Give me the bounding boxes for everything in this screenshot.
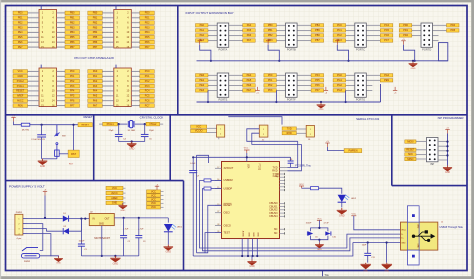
svg-text:PB7: PB7 bbox=[315, 39, 320, 42]
svg-text:PA5: PA5 bbox=[93, 95, 98, 98]
net label PC2 bbox=[333, 34, 346, 38]
svg-text:PB4: PB4 bbox=[70, 31, 75, 34]
junction PORTE drop/bus bbox=[207, 101, 209, 103]
wire CON2 left pin 5 bbox=[102, 22, 114, 24]
junction PORTF drop/bus bbox=[275, 101, 277, 103]
svg-text:PD5: PD5 bbox=[145, 36, 150, 39]
svg-text:PWREN: PWREN bbox=[349, 149, 358, 152]
crystal X1 bbox=[128, 120, 134, 127]
wire CON1 left pin 5 bbox=[28, 22, 40, 24]
wire CON1 left pin 7 bbox=[28, 27, 40, 29]
net label PE3 bbox=[196, 89, 209, 93]
wire PORTG right row 2 bbox=[366, 79, 380, 81]
junction PORTB hook/bus bbox=[278, 60, 280, 62]
wire bottom bus right end bbox=[380, 84, 382, 102]
svg-text:PE1: PE1 bbox=[18, 17, 23, 20]
wire bottom expansion bus bbox=[197, 101, 381, 103]
net label PF7 bbox=[65, 104, 80, 108]
wire CON1 left pin 3 bbox=[28, 17, 40, 19]
net label PD7 bbox=[140, 45, 155, 49]
svg-text:PA7: PA7 bbox=[93, 104, 98, 107]
capacitor C6 bbox=[308, 231, 313, 235]
capacitor C8 bbox=[288, 161, 294, 163]
net label PA3 bbox=[196, 39, 209, 42]
divider horizontal main bbox=[6, 114, 468, 116]
svg-text:PD7: PD7 bbox=[145, 46, 150, 49]
junction xtal1/C4 bbox=[118, 123, 120, 125]
wire CON3 right pin 8 bbox=[57, 85, 66, 87]
svg-text:PA6: PA6 bbox=[247, 34, 252, 37]
svg-text:PORTA: PORTA bbox=[219, 48, 228, 52]
net label PA2 bbox=[88, 79, 103, 83]
net label PA3 bbox=[88, 84, 103, 88]
wire PORTG left row 2 bbox=[346, 79, 355, 81]
wire CON1 right pin 4 bbox=[57, 17, 66, 19]
resistor R3 bbox=[204, 187, 211, 190]
+5 near label bbox=[325, 143, 329, 147]
svg-text:VCCIO: VCCIO bbox=[195, 130, 203, 133]
connector CON2 pin-1 stub bbox=[115, 6, 117, 10]
net label PA1 bbox=[196, 29, 209, 33]
svg-text:PE4: PE4 bbox=[18, 31, 23, 34]
wire ISP left row 1 bbox=[416, 141, 427, 143]
junction bus ground bbox=[412, 60, 414, 62]
svg-text:PA5: PA5 bbox=[247, 29, 252, 32]
svg-text:22pF: 22pF bbox=[149, 130, 154, 132]
net label ISP MISO bbox=[405, 157, 416, 161]
net label stack2 row 1 bbox=[147, 190, 161, 194]
svg-text:FT232: FT232 bbox=[258, 164, 260, 171]
net label PA5 bbox=[88, 94, 103, 98]
svg-text:PE0: PE0 bbox=[200, 74, 205, 77]
net label PC3 bbox=[333, 39, 346, 42]
wire CON3 left pin 5 bbox=[28, 80, 40, 82]
svg-text:PB5: PB5 bbox=[70, 36, 75, 39]
wire CON2 right pin 16 bbox=[131, 46, 140, 48]
net label PG1 bbox=[333, 79, 346, 83]
svg-text:PD0: PD0 bbox=[403, 24, 408, 27]
svg-text:PE2: PE2 bbox=[200, 84, 205, 87]
wire to LED1 bbox=[167, 218, 169, 223]
wire C8 bottom bbox=[290, 163, 292, 167]
svg-text:PC7: PC7 bbox=[384, 39, 389, 42]
svg-text:PE5: PE5 bbox=[18, 36, 23, 39]
net label PE2 bbox=[13, 21, 28, 25]
svg-text:PF0: PF0 bbox=[70, 70, 75, 73]
wire to C11 bbox=[367, 243, 369, 254]
svg-text:GND: GND bbox=[120, 210, 125, 212]
wire to C2 bbox=[123, 218, 125, 236]
net label PWREN bbox=[344, 149, 362, 153]
wire crystal to xtal2 bbox=[135, 123, 146, 125]
wire CON3 right pin 2 bbox=[57, 70, 66, 72]
svg-text:GND: GND bbox=[257, 232, 259, 237]
svg-text:INPUT OUTPUT EXPANSION BAY: INPUT OUTPUT EXPANSION BAY bbox=[186, 11, 234, 15]
wire CON4 left pin 7 bbox=[102, 85, 114, 87]
svg-text:PG2: PG2 bbox=[337, 84, 342, 87]
net label PB5 bbox=[311, 29, 324, 33]
net label stack2 row 3 bbox=[147, 198, 161, 202]
wire PWR1 pin 4 bbox=[23, 233, 28, 235]
net label XTAL2 bbox=[13, 79, 28, 83]
wire PORTB left row 3 bbox=[276, 34, 285, 36]
svg-text:RESET: RESET bbox=[406, 149, 415, 152]
svg-text:PB4: PB4 bbox=[93, 31, 98, 34]
net label PE3 bbox=[13, 26, 28, 30]
svg-text:PC3: PC3 bbox=[145, 85, 150, 88]
net label PC6 bbox=[140, 99, 155, 103]
net label PE6 bbox=[243, 84, 256, 88]
net label VCC stack1 bbox=[106, 186, 123, 190]
+5 power at PORTA bbox=[198, 41, 202, 45]
wire PORTB right row 4 bbox=[297, 40, 311, 42]
wire bus right loop bbox=[439, 43, 448, 61]
wire PORTF right row 4 bbox=[297, 89, 311, 91]
net label PC6 bbox=[380, 34, 393, 38]
wire CON4 left pin 9 bbox=[102, 90, 114, 92]
wire PORTC right row 3 bbox=[366, 34, 380, 36]
ground stack1 bbox=[118, 204, 127, 209]
capacitor C10 bbox=[325, 231, 330, 235]
wire stack1 VCC stub bbox=[123, 187, 126, 189]
connector CON3 pin numbers bbox=[41, 70, 55, 107]
wire PORTE left row 4 bbox=[208, 89, 217, 91]
capacitor C2 bbox=[120, 236, 127, 238]
net label GND stack1 bbox=[106, 201, 123, 205]
net label PC4 bbox=[380, 24, 393, 28]
junction gnd rail bbox=[114, 255, 116, 257]
net label PA1 bbox=[88, 74, 103, 78]
svg-text:PF0: PF0 bbox=[268, 74, 273, 77]
svg-text:PD1: PD1 bbox=[145, 17, 150, 20]
svg-text:Title: Title bbox=[324, 274, 329, 277]
svg-text:POWER SUPPLY 5 VOLT: POWER SUPPLY 5 VOLT bbox=[9, 184, 45, 188]
net label PD0 bbox=[140, 11, 155, 15]
wire stack2 row 4 stub bbox=[161, 202, 164, 204]
connector PWR1 pin numbers bbox=[18, 218, 20, 235]
wire stack1 GND stub bbox=[123, 202, 126, 204]
wire CON3 right pin 4 bbox=[57, 75, 66, 77]
svg-text:PA2: PA2 bbox=[93, 80, 98, 83]
wire CON2 left pin 15 bbox=[102, 46, 114, 48]
net label PD1 bbox=[399, 29, 412, 33]
svg-text:PORTG: PORTG bbox=[356, 98, 365, 102]
svg-text:GND: GND bbox=[166, 251, 172, 254]
junction ISP row bbox=[446, 150, 448, 152]
net label PC3 bbox=[140, 84, 155, 88]
wire PORTA right row 2 bbox=[229, 29, 243, 31]
wire top long net bbox=[228, 117, 282, 125]
net label PB0 bbox=[65, 11, 80, 15]
svg-text:PB3: PB3 bbox=[93, 26, 98, 29]
diode D2 bbox=[63, 228, 69, 234]
svg-text:PORTE: PORTE bbox=[218, 98, 227, 102]
ground reset bbox=[38, 159, 48, 165]
wire U3 pin OSCO stub bbox=[215, 225, 222, 227]
jumper J6 body bbox=[306, 125, 314, 137]
net label PC4 bbox=[140, 89, 155, 93]
svg-text:PD2: PD2 bbox=[145, 22, 150, 25]
svg-text:NC: NC bbox=[274, 232, 278, 235]
wire test route bbox=[205, 233, 222, 253]
svg-text:AVCC: AVCC bbox=[111, 192, 118, 195]
connector J2 USB body bbox=[401, 222, 438, 250]
+5 power supply bbox=[43, 192, 47, 196]
svg-text:GND: GND bbox=[249, 266, 254, 268]
svg-text:PA7: PA7 bbox=[247, 39, 252, 42]
ground bottom bus bbox=[317, 103, 326, 108]
capacitor C11 bbox=[364, 253, 371, 255]
net label PB1 bbox=[264, 29, 277, 33]
svg-text:PORTD: PORTD bbox=[422, 48, 431, 52]
net label RESET bbox=[78, 123, 92, 127]
wire LED1 to gnd bbox=[167, 232, 169, 245]
ground crystal bbox=[127, 142, 137, 148]
svg-text:PC6: PC6 bbox=[145, 100, 150, 103]
svg-text:VCC: VCC bbox=[151, 194, 156, 197]
jumper J4 body bbox=[217, 125, 225, 137]
pin header PORTG bbox=[355, 73, 367, 102]
net label J4 VCCIO bbox=[191, 129, 207, 133]
net label PB2 bbox=[264, 34, 277, 38]
svg-text:ISP: ISP bbox=[430, 162, 434, 166]
svg-text:PB7: PB7 bbox=[93, 46, 98, 49]
wire PORTC right row 1 bbox=[366, 24, 380, 26]
svg-text:PF2: PF2 bbox=[268, 84, 273, 87]
wire xtal1 to crystal bbox=[118, 123, 128, 125]
net label PE7 bbox=[243, 89, 256, 93]
push button SW bbox=[54, 125, 59, 159]
wire CON1 left pin 1 bbox=[28, 12, 40, 14]
svg-text:GND: GND bbox=[18, 75, 24, 78]
net label PB6 bbox=[65, 40, 80, 44]
svg-text:RESET: RESET bbox=[224, 204, 233, 207]
svg-text:PC7: PC7 bbox=[145, 104, 150, 107]
wire PWR1 rows to jack bbox=[28, 224, 51, 257]
svg-text:NC: NC bbox=[274, 228, 278, 231]
svg-text:PEN: PEN bbox=[384, 79, 389, 82]
net label PE6 bbox=[13, 40, 28, 44]
wire PORTC left row 4 bbox=[346, 40, 355, 42]
wire ISP right rows bbox=[438, 142, 448, 160]
svg-text:PF5: PF5 bbox=[315, 79, 320, 82]
svg-text:PD3: PD3 bbox=[145, 26, 150, 29]
svg-text:GND: GND bbox=[252, 232, 254, 237]
wire USB gnd route bbox=[353, 242, 401, 244]
net label GND bbox=[13, 74, 28, 78]
svg-text:AVCC: AVCC bbox=[17, 100, 24, 103]
wire CON2 left pin 1 bbox=[102, 12, 114, 14]
wire +5 to label bbox=[328, 147, 345, 151]
wire top rail C7 bbox=[193, 156, 290, 158]
junction crystal gnd bbox=[131, 140, 133, 142]
wire VCC to U3 bbox=[246, 153, 248, 162]
junction C7 top bbox=[192, 156, 194, 158]
svg-text:VCC: VCC bbox=[196, 126, 201, 129]
wire PORTD power hook bbox=[404, 45, 415, 61]
svg-text:ISP PROGRAMMER: ISP PROGRAMMER bbox=[438, 116, 464, 120]
wire PORTE right row 2 bbox=[229, 79, 243, 81]
wire PORTE right row 3 bbox=[229, 84, 243, 86]
pin header PORTE bbox=[217, 73, 229, 102]
wire CON2 left pin 11 bbox=[102, 36, 114, 38]
net label PB3 bbox=[88, 26, 103, 30]
wire CON4 left pin 11 bbox=[102, 95, 114, 97]
IC U3 left pin labels bbox=[224, 167, 234, 234]
svg-text:PEN: PEN bbox=[18, 104, 23, 107]
wire CON3 right pin 10 bbox=[57, 90, 66, 92]
junction C3cap bbox=[138, 217, 140, 219]
ground regulator bbox=[110, 256, 120, 262]
wire PORTA left row 3 bbox=[208, 34, 217, 36]
wire CON2 left pin 3 bbox=[102, 17, 114, 19]
net label PD3 bbox=[140, 26, 155, 30]
svg-text:PA0: PA0 bbox=[93, 70, 98, 73]
wire CON4 left pin 1 bbox=[102, 70, 114, 72]
svg-text:SERIAL FTDI 232: SERIAL FTDI 232 bbox=[356, 117, 379, 121]
wire CON2 right pin 4 bbox=[131, 17, 140, 19]
connector CON4 body bbox=[114, 68, 132, 107]
svg-text:IN: IN bbox=[92, 218, 95, 220]
wire CON3 left pin 15 bbox=[28, 105, 40, 107]
svg-text:PF7: PF7 bbox=[70, 104, 75, 107]
wire jack to ground bbox=[40, 256, 59, 257]
svg-text:LED1: LED1 bbox=[177, 227, 183, 229]
svg-text:PE7: PE7 bbox=[247, 89, 252, 92]
diode D1 bbox=[63, 216, 69, 222]
IC U3 modem pin stubs bbox=[280, 173, 285, 191]
net label PG2 bbox=[333, 84, 346, 88]
wire ISP left row 3 bbox=[416, 153, 427, 155]
component R6 body bbox=[55, 150, 60, 156]
junction ISP row bbox=[446, 145, 448, 147]
wire U3 RXD stub bbox=[280, 170, 288, 172]
svg-text:XTAL2: XTAL2 bbox=[149, 123, 157, 126]
resistor R4 bbox=[311, 187, 319, 190]
svg-text:PA1: PA1 bbox=[200, 29, 205, 32]
net label PB7 bbox=[311, 39, 324, 42]
wire J5 loop A bbox=[247, 129, 298, 142]
svg-text:PC1: PC1 bbox=[145, 75, 150, 78]
net label RESET bbox=[13, 89, 28, 93]
connector CON3 pin-1 stub bbox=[40, 65, 42, 68]
net label PC0 bbox=[333, 24, 346, 28]
ground caps pair bbox=[315, 243, 324, 248]
wire PORTF right row 1 bbox=[297, 74, 311, 76]
net label XTAL1 bbox=[103, 122, 118, 126]
wire CON4 right pin 14 bbox=[131, 100, 140, 102]
svg-text:PF3: PF3 bbox=[268, 89, 273, 92]
net label PB6 bbox=[311, 34, 324, 38]
svg-text:PA3: PA3 bbox=[93, 85, 98, 88]
net label PB2 bbox=[88, 21, 103, 25]
junction gnd stub bbox=[256, 255, 258, 257]
connector CON4 pin-1 stub bbox=[115, 65, 117, 68]
junction PORTA hook/bus bbox=[210, 60, 212, 62]
svg-text:PC5: PC5 bbox=[384, 29, 389, 32]
pin header PORTD bbox=[421, 23, 433, 52]
pin header PORTB bbox=[286, 23, 298, 52]
ground jack bbox=[54, 256, 63, 261]
net label PD6 bbox=[140, 40, 155, 44]
svg-text:GND: GND bbox=[384, 270, 389, 272]
junction bottom bus ground bbox=[320, 101, 322, 103]
wire 3V3 route bbox=[196, 155, 198, 253]
wire PORTF gnd drop bbox=[275, 90, 277, 102]
net label PC7 bbox=[380, 39, 393, 42]
net label PE5 bbox=[243, 79, 256, 83]
svg-text:GND: GND bbox=[317, 249, 322, 251]
net label PC7 bbox=[140, 104, 155, 108]
junction PORTG drop/bus bbox=[345, 101, 347, 103]
connector CON1 pin numbers bbox=[41, 12, 55, 49]
svg-text:GND: GND bbox=[56, 263, 61, 265]
wire CON3 right pin 12 bbox=[57, 95, 66, 97]
+5 power at PORTB bbox=[266, 41, 270, 45]
junction gnd stub bbox=[247, 255, 249, 257]
svg-text:RST: RST bbox=[69, 164, 74, 166]
net label PG4 bbox=[380, 74, 393, 78]
wire TXD row to loop A bbox=[288, 141, 298, 167]
LED LED2 bbox=[338, 195, 350, 202]
net label PE4 bbox=[13, 31, 28, 35]
svg-text:PF1: PF1 bbox=[268, 79, 273, 82]
wire CON4 left pin 3 bbox=[102, 75, 114, 77]
wire stack1 AVCC stub bbox=[123, 192, 126, 194]
svg-text:USB-B Through Hole: USB-B Through Hole bbox=[440, 226, 464, 229]
svg-text:OUT: OUT bbox=[105, 218, 110, 220]
svg-text:PD2: PD2 bbox=[403, 34, 408, 37]
svg-text:100nF: 100nF bbox=[79, 241, 86, 243]
junction reg input bbox=[84, 218, 86, 220]
net label PE5 bbox=[13, 35, 28, 39]
wire C11 to gnd bbox=[367, 256, 369, 263]
wire caps bottom rail bbox=[311, 236, 328, 240]
connector PWR1 body bbox=[15, 214, 23, 235]
wire reset ground rail bbox=[42, 158, 57, 160]
wire PORTF left row 2 bbox=[276, 79, 285, 81]
+5 power ISP bbox=[445, 130, 449, 134]
ground LED2 bbox=[337, 208, 347, 214]
svg-text:22pF: 22pF bbox=[109, 130, 114, 132]
wire caps top rail bbox=[311, 228, 328, 231]
wire CON2 left pin 7 bbox=[102, 27, 114, 29]
svg-text:GND: GND bbox=[113, 262, 119, 265]
svg-text:PC2: PC2 bbox=[145, 80, 150, 83]
wire PORTA right row 1 bbox=[229, 24, 243, 26]
svg-text:PD4: PD4 bbox=[450, 24, 455, 27]
capacitor C4 bbox=[115, 134, 123, 136]
svg-text:PA4: PA4 bbox=[247, 24, 252, 27]
junction xtal2/C5 bbox=[144, 123, 146, 125]
net label RXD bbox=[282, 131, 296, 135]
net label PF0 bbox=[65, 70, 80, 74]
net label PD1 bbox=[140, 16, 155, 20]
junction caps gnd bbox=[318, 239, 320, 241]
pin header PORTA bbox=[217, 23, 229, 52]
+5 power right of PORTE bbox=[255, 87, 259, 91]
wire CON1 left pin 11 bbox=[28, 36, 40, 38]
junction +5/rail bbox=[44, 217, 46, 219]
net label PD5 bbox=[447, 29, 460, 33]
wire stack1 to ground bbox=[122, 203, 124, 204]
wire CON1 right pin 8 bbox=[57, 27, 66, 29]
svg-text:GND: GND bbox=[99, 224, 104, 226]
svg-text:MISO: MISO bbox=[407, 158, 413, 161]
+5 power at PORTC bbox=[335, 41, 339, 45]
net label PB6 bbox=[88, 40, 103, 44]
net label ISP SCK bbox=[405, 153, 416, 157]
